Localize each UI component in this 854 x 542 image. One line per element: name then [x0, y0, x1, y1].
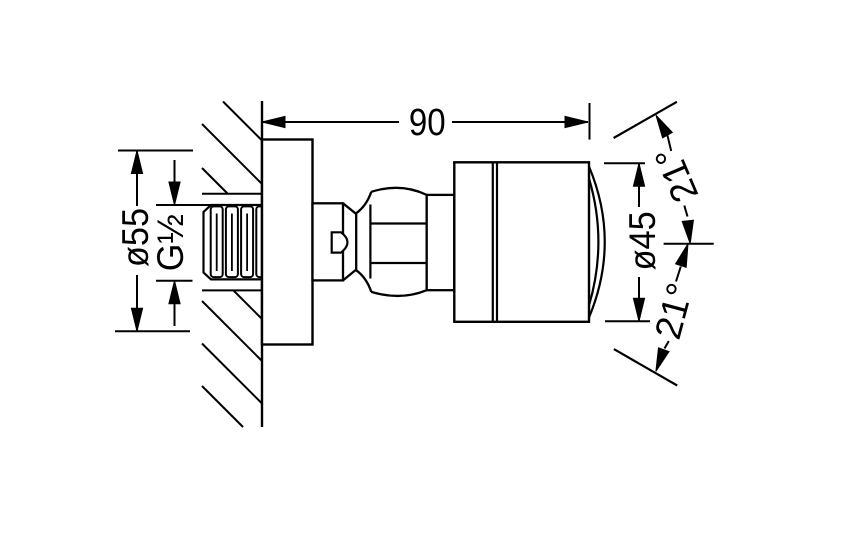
svg-text:90: 90	[409, 101, 446, 144]
svg-text:21°: 21°	[647, 279, 701, 344]
svg-text:21°: 21°	[647, 141, 707, 209]
svg-text:ø45: ø45	[622, 211, 663, 270]
svg-text:G½: G½	[149, 214, 191, 271]
